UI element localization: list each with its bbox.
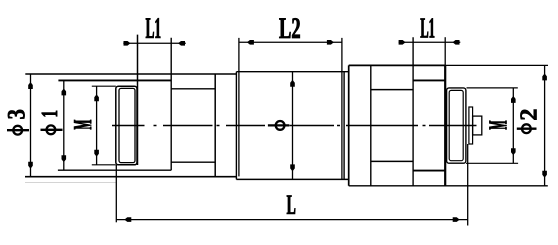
arrowheads phi1 [62, 88, 67, 162]
left hub bottom edge (phi1 section) [58, 169, 171, 171]
arrowheads phi2 [542, 73, 547, 177]
right end nub [473, 116, 482, 135]
left sleeve outer rectangle [116, 86, 137, 165]
left sleeve inner rectangle [119, 88, 135, 162]
label M left [74, 120, 91, 129]
right cylinder inner bore bottom line [371, 160, 413, 162]
right cylinder internal vertical [370, 65, 372, 185]
centerline (horizontal axis, dash-dot) [112, 125, 477, 127]
right sleeve outer rectangle [447, 88, 466, 163]
left body internal bore top line [171, 88, 215, 90]
right cylinder inner bore top line [371, 89, 413, 91]
dimension L1 left: dimension line [123, 42, 186, 44]
dimension M left: extension lines [92, 86, 116, 165]
dimension L2: dimension line [239, 41, 342, 43]
right end band [469, 107, 473, 144]
label phi1 digit 1 [42, 111, 57, 116]
arrowheads L2 (inside pair) [247, 40, 334, 45]
dimension M right: extension lines [466, 88, 518, 163]
dimension L1 right: left extension line (and internal edge) [412, 37, 414, 186]
dimension M right: dimension line [512, 88, 514, 163]
label M right [489, 121, 506, 130]
arrowheads L (inside pair) [124, 217, 459, 222]
dimension L2: left extension line [238, 38, 240, 177]
right cylinder counterbore bottom line [413, 170, 445, 172]
label phi2 digit 2 [520, 110, 536, 120]
faint shadow line under left body [25, 182, 116, 184]
right cylinder top edge [349, 64, 446, 66]
dimension phi2: dimension line [544, 65, 546, 185]
right cylinder right edge [444, 65, 446, 185]
center cylinder top edge [236, 71, 348, 73]
label L1 right [421, 18, 435, 37]
arrowheads phi center [290, 80, 295, 172]
dimension L1 right: dimension line [399, 41, 461, 43]
left body top edge (phi3 section) [25, 73, 236, 75]
center cylinder right edge [343, 72, 345, 180]
dimension L1 left: extension line at hub right [170, 38, 172, 171]
arrowheads L1 left (outside pair) [124, 41, 186, 46]
right cylinder bottom edge plus phi2 bottom extension [349, 185, 548, 187]
label phi3 digit 3 [8, 110, 25, 119]
label L1 left [146, 18, 160, 38]
dimension L: left extension line [115, 165, 117, 222]
arrowheads L1 right (outside pair) [399, 40, 460, 45]
left body internal bore bottom line [171, 161, 215, 163]
phi2 top extension line [445, 64, 548, 66]
label phi3 symbol [7, 129, 29, 131]
dimension L2: right extension line [341, 38, 343, 180]
label L bottom [287, 196, 295, 214]
dimension M left: dimension line [96, 86, 98, 165]
label phi center symbol on axis [268, 124, 289, 126]
dimension phi3: dimension line [30, 74, 32, 177]
dimension phi center: dimension line [292, 72, 294, 180]
label L2 [279, 18, 299, 38]
center cylinder bottom edge [236, 178, 348, 180]
left hub top edge (phi1 section) [58, 79, 171, 81]
arrowheads phi3 [28, 82, 33, 169]
dimension phi1: dimension line [63, 80, 65, 170]
dimension L1 right: right extension line [444, 37, 446, 65]
dimension L1 left: extension line at sleeve right [137, 35, 139, 165]
dimension L: dimension line [116, 219, 467, 221]
right sleeve inner rectangle [449, 90, 463, 160]
center cylinder left edge [235, 72, 237, 180]
label phi1 symbol [41, 129, 63, 131]
right cylinder left edge [348, 65, 350, 185]
left body bottom edge (phi3 section) [25, 176, 237, 178]
right cylinder counterbore top line [413, 79, 445, 81]
arrowheads M right [511, 96, 516, 155]
dimension L: right extension line [467, 144, 469, 226]
label phi2 symbol [517, 128, 537, 130]
left body internal vertical step [214, 74, 216, 177]
arrowheads M left [94, 94, 99, 157]
